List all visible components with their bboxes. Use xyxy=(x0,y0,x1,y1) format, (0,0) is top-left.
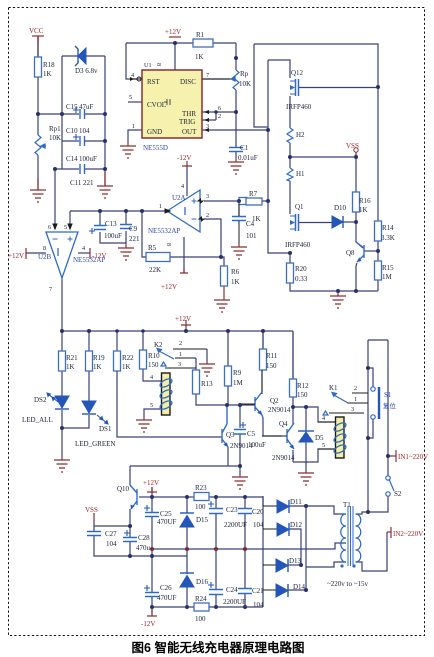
svg-text:NE5532AP: NE5532AP xyxy=(73,256,105,264)
svg-text:C24: C24 xyxy=(226,586,238,594)
svg-text:K1: K1 xyxy=(329,384,338,392)
svg-text:Q8: Q8 xyxy=(346,249,355,257)
svg-text:1: 1 xyxy=(179,351,182,358)
svg-text:DS2: DS2 xyxy=(34,396,47,404)
svg-text:R6: R6 xyxy=(231,268,240,276)
svg-text:8: 8 xyxy=(43,245,46,252)
svg-text:7: 7 xyxy=(206,72,209,79)
svg-text:4: 4 xyxy=(82,245,85,252)
svg-text:470u: 470u xyxy=(136,544,151,552)
svg-text:R23: R23 xyxy=(195,484,207,492)
svg-text:复位: 复位 xyxy=(383,401,397,410)
svg-text:C11: C11 xyxy=(70,179,82,187)
svg-text:8: 8 xyxy=(155,63,162,66)
svg-text:1: 1 xyxy=(159,203,162,210)
svg-text:R24: R24 xyxy=(195,595,207,603)
svg-text:5: 5 xyxy=(322,442,325,449)
svg-text:Rp: Rp xyxy=(240,70,249,78)
svg-text:0.01uF: 0.01uF xyxy=(238,154,258,162)
svg-text:R1: R1 xyxy=(196,31,205,39)
svg-text:D3 6.8v: D3 6.8v xyxy=(75,67,98,75)
svg-text:DS1: DS1 xyxy=(99,425,112,433)
svg-text:C27: C27 xyxy=(105,530,117,538)
svg-text:D14: D14 xyxy=(293,583,306,591)
svg-text:101: 101 xyxy=(246,232,257,240)
svg-text:1K: 1K xyxy=(66,363,75,371)
svg-text:4: 4 xyxy=(150,374,153,381)
svg-text:1: 1 xyxy=(132,123,135,130)
svg-text:C20: C20 xyxy=(252,508,264,516)
svg-text:R9: R9 xyxy=(233,369,242,377)
svg-text:100uF: 100uF xyxy=(248,441,266,449)
svg-text:1K: 1K xyxy=(195,53,204,61)
svg-text:2200UF: 2200UF xyxy=(224,521,247,529)
svg-text:Q10: Q10 xyxy=(117,485,130,493)
svg-text:R20: R20 xyxy=(295,265,307,273)
svg-text:100: 100 xyxy=(195,503,206,511)
svg-text:C26: C26 xyxy=(160,584,172,592)
svg-text:VSS: VSS xyxy=(85,506,98,514)
svg-text:图6 智能无线充电器原理电路图: 图6 智能无线充电器原理电路图 xyxy=(132,640,305,655)
svg-text:C28: C28 xyxy=(138,534,150,542)
svg-text:2: 2 xyxy=(354,385,357,392)
svg-text:VSS: VSS xyxy=(346,142,359,150)
svg-text:OUT: OUT xyxy=(182,128,197,136)
svg-text:1K: 1K xyxy=(43,70,52,78)
svg-text:1K: 1K xyxy=(359,206,368,214)
svg-text:NE555D: NE555D xyxy=(143,144,168,152)
svg-text:R5: R5 xyxy=(148,244,157,252)
svg-text:2: 2 xyxy=(218,113,221,120)
svg-text:H2: H2 xyxy=(296,131,305,139)
svg-text:3: 3 xyxy=(351,406,354,413)
svg-text:C9: C9 xyxy=(129,225,138,233)
svg-text:104: 104 xyxy=(79,127,90,135)
svg-text:2: 2 xyxy=(179,340,182,347)
svg-text:6: 6 xyxy=(48,224,51,231)
svg-text:+12V: +12V xyxy=(161,283,177,291)
svg-text:1M: 1M xyxy=(382,273,393,281)
svg-text:2N9014: 2N9014 xyxy=(268,406,291,414)
svg-text:DISC: DISC xyxy=(180,78,196,86)
svg-text:10K: 10K xyxy=(239,80,251,88)
svg-text:C10: C10 xyxy=(66,127,78,135)
svg-text:R14: R14 xyxy=(382,224,394,232)
svg-text:100uF: 100uF xyxy=(79,155,97,163)
svg-text:R16: R16 xyxy=(359,197,371,205)
svg-text:Q1: Q1 xyxy=(295,203,304,211)
svg-text:U1: U1 xyxy=(144,62,152,69)
svg-text:47uF: 47uF xyxy=(79,103,94,111)
svg-text:+12V: +12V xyxy=(8,252,24,260)
svg-text:D13: D13 xyxy=(289,557,302,565)
svg-text:104: 104 xyxy=(253,521,264,529)
svg-text:IRFP460: IRFP460 xyxy=(285,241,311,249)
svg-text:-12V: -12V xyxy=(141,620,155,628)
svg-text:D5: D5 xyxy=(315,434,324,442)
svg-text:221: 221 xyxy=(129,235,140,243)
svg-text:1K: 1K xyxy=(231,278,240,286)
svg-text:D16: D16 xyxy=(196,578,209,586)
svg-text:1: 1 xyxy=(354,396,357,403)
svg-text:22K: 22K xyxy=(149,266,161,274)
svg-text:Rp1: Rp1 xyxy=(49,125,61,133)
svg-text:1K: 1K xyxy=(122,363,131,371)
svg-text:104: 104 xyxy=(253,601,264,609)
svg-text:NE5532AP: NE5532AP xyxy=(148,227,180,235)
svg-text:U2B: U2B xyxy=(38,253,52,261)
svg-text:Q3: Q3 xyxy=(226,431,235,439)
svg-text:R22: R22 xyxy=(122,354,134,362)
svg-text:LED_ALL: LED_ALL xyxy=(22,416,53,424)
svg-text:C1: C1 xyxy=(240,144,249,152)
svg-text:0.33: 0.33 xyxy=(295,275,308,283)
svg-text:-12V: -12V xyxy=(177,154,191,162)
svg-text:TRIG: TRIG xyxy=(179,118,195,126)
svg-text:D10: D10 xyxy=(334,204,347,212)
svg-text:IN2~220V: IN2~220V xyxy=(393,530,423,538)
svg-text:LED_GREEN: LED_GREEN xyxy=(75,440,115,448)
svg-text:100: 100 xyxy=(195,615,206,623)
svg-text:VCC: VCC xyxy=(29,27,44,35)
svg-text:1K: 1K xyxy=(93,363,102,371)
svg-text:S1: S1 xyxy=(384,391,392,399)
svg-text:RST: RST xyxy=(147,78,161,86)
svg-text:R13: R13 xyxy=(201,380,213,388)
svg-text:R21: R21 xyxy=(66,354,78,362)
svg-text:2: 2 xyxy=(206,212,209,219)
svg-text:104: 104 xyxy=(106,540,117,548)
svg-text:IN1~220V: IN1~220V xyxy=(398,453,428,461)
svg-text:4: 4 xyxy=(181,183,184,190)
svg-text:R12: R12 xyxy=(297,382,309,390)
svg-text:R15: R15 xyxy=(382,264,394,272)
svg-text:3: 3 xyxy=(178,361,181,368)
svg-text:C5: C5 xyxy=(247,430,256,438)
svg-text:U2A: U2A xyxy=(172,194,186,202)
svg-text:C4: C4 xyxy=(246,220,255,228)
svg-text:5: 5 xyxy=(150,402,153,409)
svg-text:C14: C14 xyxy=(66,155,78,163)
svg-text:150: 150 xyxy=(148,361,159,369)
svg-text:R19: R19 xyxy=(93,354,105,362)
svg-text:D11: D11 xyxy=(290,498,302,506)
svg-text:3.3K: 3.3K xyxy=(381,234,395,242)
svg-text:CVOL: CVOL xyxy=(147,101,166,109)
svg-text:GND: GND xyxy=(147,128,162,136)
svg-text:4: 4 xyxy=(322,415,325,422)
svg-text:2200UF: 2200UF xyxy=(223,598,246,606)
svg-text:150: 150 xyxy=(266,362,277,370)
svg-text:5: 5 xyxy=(64,224,67,231)
svg-text:R11: R11 xyxy=(266,352,278,360)
svg-text:Q2: Q2 xyxy=(270,397,279,405)
svg-text:C25: C25 xyxy=(160,510,172,518)
svg-text:8: 8 xyxy=(165,243,172,246)
svg-text:6: 6 xyxy=(218,105,221,112)
svg-text:IRFP460: IRFP460 xyxy=(286,103,312,111)
svg-text:D12: D12 xyxy=(290,521,303,529)
svg-text:10K: 10K xyxy=(49,134,61,142)
svg-text:~220v to ~15v: ~220v to ~15v xyxy=(327,580,369,588)
svg-text:C13: C13 xyxy=(105,220,117,228)
svg-text:D15: D15 xyxy=(196,516,209,524)
svg-text:+12V: +12V xyxy=(165,28,181,36)
svg-text:R18: R18 xyxy=(43,61,55,69)
svg-text:221: 221 xyxy=(83,179,94,187)
svg-text:3: 3 xyxy=(206,193,209,200)
svg-text:7: 7 xyxy=(49,286,52,293)
svg-text:+12V: +12V xyxy=(143,479,159,487)
svg-text:1M: 1M xyxy=(233,379,244,387)
svg-text:3: 3 xyxy=(206,123,209,130)
svg-text:R7: R7 xyxy=(249,190,258,198)
svg-text:470UF: 470UF xyxy=(157,518,177,526)
svg-text:THR: THR xyxy=(182,110,196,118)
svg-text:K2: K2 xyxy=(154,341,163,349)
svg-text:2N9014: 2N9014 xyxy=(272,454,295,462)
svg-text:H1: H1 xyxy=(296,170,305,178)
svg-text:Q12: Q12 xyxy=(291,69,304,77)
svg-text:C21: C21 xyxy=(252,587,264,595)
svg-text:S2: S2 xyxy=(394,490,402,498)
svg-text:150: 150 xyxy=(297,391,308,399)
svg-text:C23: C23 xyxy=(226,506,238,514)
svg-text:R10: R10 xyxy=(148,352,160,360)
svg-text:T1: T1 xyxy=(343,501,351,509)
svg-text:Q4: Q4 xyxy=(279,420,288,428)
svg-text:100uF: 100uF xyxy=(104,232,122,240)
svg-text:470UF: 470UF xyxy=(157,594,177,602)
svg-text:+12V: +12V xyxy=(175,315,191,323)
svg-text:5: 5 xyxy=(129,94,132,101)
svg-text:4: 4 xyxy=(131,72,134,79)
